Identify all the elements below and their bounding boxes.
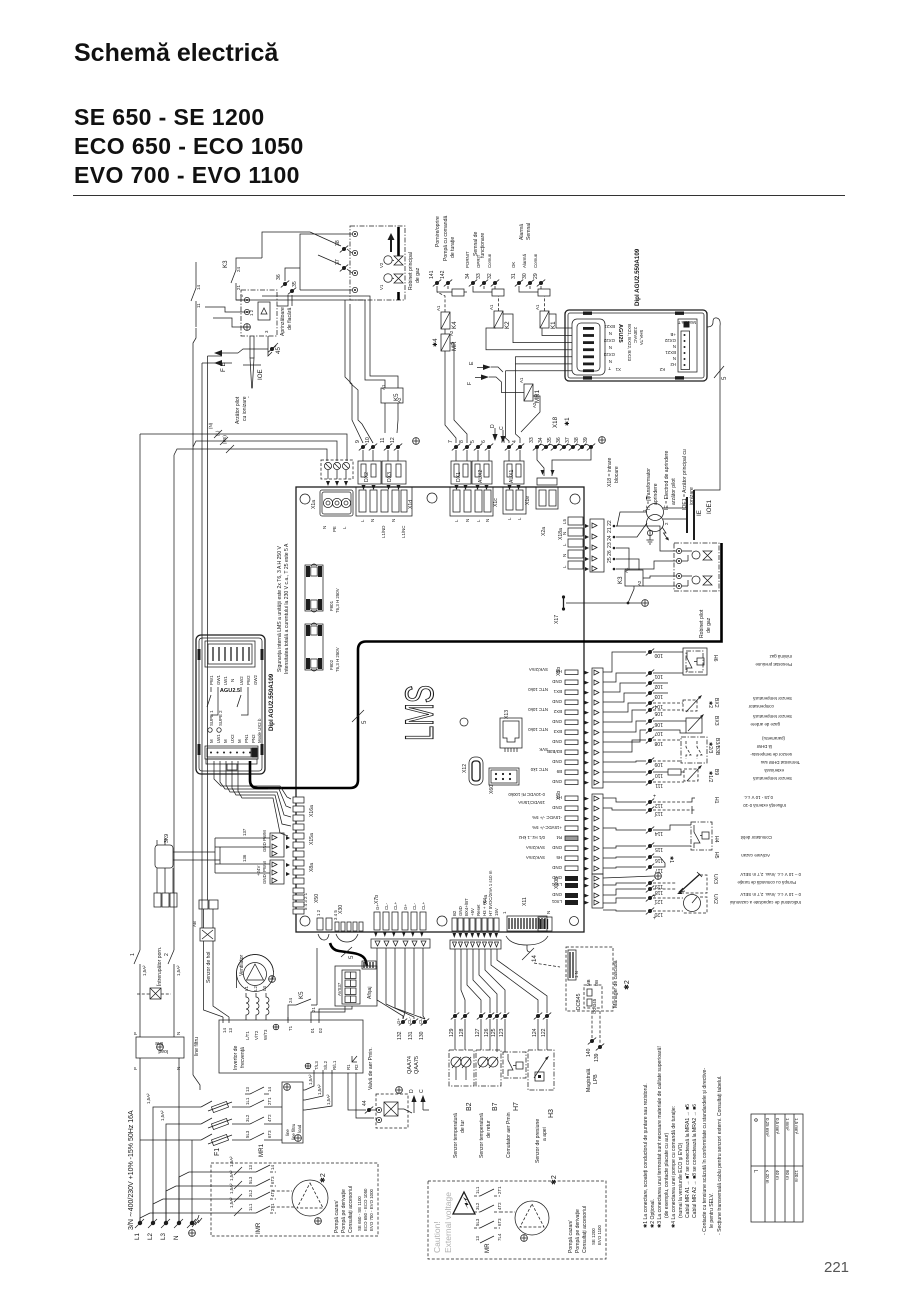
gas box terminals <box>352 231 357 292</box>
svg-text:X18 = intrare: X18 = intrare <box>607 458 613 487</box>
svg-text:Robinet pilot: Robinet pilot <box>699 609 705 638</box>
svg-text:40 m: 40 m <box>775 1170 780 1180</box>
svg-text:15VDC/15mA: 15VDC/15mA <box>518 800 545 805</box>
wires AGU to X16a <box>268 786 291 836</box>
main valve V1 <box>379 274 403 290</box>
group pornire/oprire labels <box>435 216 456 261</box>
svg-text:4T2: 4T2 <box>270 1189 275 1197</box>
svg-text:34: 34 <box>538 437 544 443</box>
svg-text:21: 21 <box>311 1007 316 1012</box>
svg-text:BX3: BX3 <box>713 716 719 726</box>
svg-text:2: 2 <box>664 522 669 525</box>
svg-text:Comutator debit: Comutator debit <box>740 835 772 840</box>
svg-text:GND: GND <box>552 805 562 810</box>
svg-text:CL-: CL- <box>384 902 389 910</box>
svg-text:H3 + H1: H3 + H1 <box>482 899 487 916</box>
svg-text:N: N <box>609 345 612 350</box>
svg-text:Intensitatea totală a curentul: Intensitatea totală a curentului la 230 … <box>284 543 290 674</box>
svg-text:3L2: 3L2 <box>245 1114 250 1122</box>
svg-text:AGU25: AGU25 <box>617 324 623 343</box>
K3 contact b <box>191 280 201 310</box>
contacts 9-12 <box>345 300 419 461</box>
AGU2.5 output thin wires <box>214 761 268 798</box>
svg-text:de tur: de tur <box>460 1120 466 1133</box>
svg-text:CL+: CL+ <box>393 901 398 910</box>
svg-text:G+: G+ <box>375 904 380 910</box>
svg-text:Pompă cu comandă: Pompă cu comandă <box>443 216 449 261</box>
svg-text:gaze de ardere: gaze de ardere <box>750 722 780 727</box>
svg-text:25 26: 25 26 <box>607 550 613 563</box>
svg-text:F802: F802 <box>329 659 334 670</box>
contact 38 <box>335 240 348 252</box>
svg-text:R/L1: R/L1 <box>332 1060 337 1070</box>
arzator pilot label <box>235 396 252 424</box>
svg-text:35: 35 <box>292 281 298 287</box>
svg-text:F: F <box>467 382 473 385</box>
svg-text:21: 21 <box>236 285 241 290</box>
svg-text:K4: K4 <box>451 321 458 329</box>
K3 relay coil <box>616 548 643 586</box>
svg-text:BX2: BX2 <box>553 709 562 714</box>
rows 114 115 H4 flow switch <box>603 822 772 852</box>
svg-text:45: 45 <box>275 347 282 354</box>
svg-text:130: 130 <box>419 1031 425 1040</box>
rows 108 109 B3 sensor <box>603 736 792 767</box>
svg-text:Senzor temperatură: Senzor temperatură <box>753 714 792 719</box>
svg-text:BX21: BX21 <box>604 324 615 329</box>
contact 45 <box>268 336 282 356</box>
svg-text:A1: A1 <box>535 304 540 310</box>
svg-text:G+: G+ <box>396 1018 401 1024</box>
svg-text:124: 124 <box>532 1028 538 1037</box>
resistor group1 <box>437 286 468 296</box>
svg-text:L: L <box>476 519 481 522</box>
svg-text:X60: X60 <box>489 785 495 794</box>
svg-text:de turaţie: de turaţie <box>450 237 456 258</box>
svg-text:C: C <box>419 1089 425 1093</box>
X10c header <box>450 487 499 522</box>
svg-text:T1: T1 <box>288 1025 293 1031</box>
H7 air switch box <box>503 1052 526 1158</box>
svg-text:Robinet principal: Robinet principal <box>408 252 414 290</box>
svg-text:107: 107 <box>654 730 663 736</box>
rows 110 111 B9 sensor <box>603 760 800 788</box>
svg-text:1: 1 <box>502 911 507 914</box>
svg-text:104: 104 <box>654 703 663 709</box>
svg-text:11: 11 <box>380 438 386 443</box>
svg-text:-: - <box>246 396 252 398</box>
svg-text:BX21, BX22, BX23: BX21, BX22, BX23 <box>627 324 632 362</box>
svg-text:1,5A²: 1,5A² <box>308 1074 313 1085</box>
svg-text:Întrerupător porn.: Întrerupător porn. <box>156 947 163 987</box>
robinet principal de gaz box <box>350 226 421 300</box>
relay MR1 aux <box>519 377 541 408</box>
svg-text:AVS37: AVS37 <box>337 982 342 996</box>
svg-text:A1: A1 <box>519 377 524 383</box>
svg-text:UX2: UX2 <box>712 894 718 904</box>
svg-text:Manager de cascadă: Manager de cascadă <box>613 960 619 1008</box>
3K9 pump module <box>155 834 220 868</box>
rows 112 113 H1 input <box>603 792 786 819</box>
svg-text:A2: A2 <box>532 402 537 408</box>
DX1 AUX2 mating plugs <box>451 461 492 490</box>
svg-text:N: N <box>485 519 490 522</box>
svg-text:K5: K5 <box>298 991 305 999</box>
svg-text:MR: MR <box>451 341 458 351</box>
X2a contact dots <box>613 525 616 571</box>
svg-text:108: 108 <box>654 740 663 746</box>
svg-text:IOE: IOE <box>257 369 264 380</box>
line load filter box <box>133 1032 200 1070</box>
svg-text:K2: K2 <box>504 321 511 329</box>
svg-text:H6: H6 <box>712 655 718 662</box>
fuse F801 <box>305 564 340 613</box>
svg-text:DX2: DX2 <box>364 472 370 482</box>
F1 fuses <box>208 1101 232 1156</box>
X10a mating plug <box>321 460 353 486</box>
svg-text:5: 5 <box>470 440 476 443</box>
rows 106 107 BX3 sensor <box>603 714 792 742</box>
contacts 141 142 <box>429 270 452 286</box>
svg-text:1,5A²: 1,5A² <box>176 965 181 976</box>
contacts 3 4 <box>501 440 524 461</box>
svg-text:✱2: ✱2 <box>623 980 631 990</box>
svg-text:R1: R1 <box>346 1064 351 1070</box>
svg-text:External voltage: External voltage <box>443 1192 453 1253</box>
svg-text:N: N <box>562 554 567 557</box>
svg-text:L: L <box>342 526 347 529</box>
svg-text:T/L3: T/L3 <box>314 1061 319 1070</box>
svg-text:A1: A1 <box>489 304 494 310</box>
svg-text:13: 13 <box>228 1028 233 1033</box>
svg-text:✱3 La conectarea unui termosta: ✱3 La conectarea unui termostat sunt nec… <box>657 1046 663 1228</box>
X7b header <box>374 895 426 930</box>
svg-text:C: C <box>499 426 505 430</box>
svg-text:2: 2 <box>164 953 170 956</box>
transformer ground <box>646 530 653 544</box>
svg-text:0-10VDC Ri 100k0: 0-10VDC Ri 100k0 <box>508 792 545 797</box>
X18 shorting loops <box>537 445 591 477</box>
line filter 2 box <box>272 1082 303 1143</box>
caution MR contacts <box>474 1186 502 1253</box>
senzor de hol thermostat <box>192 900 218 983</box>
wires relays to connectors <box>489 357 572 443</box>
svg-text:H3: H3 <box>548 1109 555 1118</box>
svg-text:Senzor temperatură: Senzor temperatură <box>453 1113 459 1158</box>
svg-text:1 N: 1 N <box>574 971 579 978</box>
svg-text:a apei: a apei <box>542 1127 548 1141</box>
svg-text:X30: X30 <box>338 905 344 914</box>
svg-text:L2: L2 <box>253 986 258 991</box>
svg-text:14: 14 <box>531 955 538 962</box>
PE row <box>603 873 661 880</box>
svg-text:Arzător pilot: Arzător pilot <box>235 396 241 424</box>
svg-text:Φ: Φ <box>752 1118 758 1122</box>
svg-text:0,15 - 10 V c.c.: 0,15 - 10 V c.c. <box>743 795 773 800</box>
switch continuation wires <box>140 972 174 1037</box>
svg-text:115: 115 <box>655 846 663 852</box>
svg-text:+B: +B <box>670 332 676 337</box>
H6 pressure switch <box>683 648 792 675</box>
svg-text:✱4: ✱4 <box>432 338 439 347</box>
svg-text:N: N <box>176 1032 181 1035</box>
AGU25 left pin labels <box>603 324 615 371</box>
svg-text:12: 12 <box>390 437 396 443</box>
svg-text:142: 142 <box>440 270 446 279</box>
svg-text:120 m: 120 m <box>794 1170 799 1183</box>
caution pump circle <box>500 1175 558 1241</box>
svg-text:AUX2: AUX2 <box>478 470 484 483</box>
model list <box>74 103 304 190</box>
svg-text:GND: GND <box>552 759 562 764</box>
svg-text:1,5A²: 1,5A² <box>142 965 147 976</box>
svg-text:IE: IE <box>696 510 703 516</box>
svg-text:BX21: BX21 <box>665 350 676 355</box>
svg-text:AUX1: AUX1 <box>509 470 515 483</box>
svg-text:X16a: X16a <box>309 805 315 817</box>
svg-text:Pompă pe derivaţie: Pompă pe derivaţie <box>341 1189 347 1233</box>
svg-text:1,5A²: 1,5A² <box>317 1084 322 1095</box>
svg-text:127: 127 <box>475 1028 481 1037</box>
svg-text:5: 5 <box>721 376 728 380</box>
svg-text:Aprinzătoare: Aprinzătoare <box>280 307 286 336</box>
svg-text:0 – 10 V c.c. /max. 2,7 m SELV: 0 – 10 V c.c. /max. 2,7 m SELV <box>740 892 801 897</box>
svg-text:PORNIT: PORNIT <box>465 251 470 268</box>
board edge bottom-right connector <box>538 917 552 931</box>
X11 mating brace <box>506 936 560 967</box>
disconnect contacts <box>196 1101 212 1140</box>
svg-text:PN1: PN1 <box>244 734 249 743</box>
svg-text:24: 24 <box>288 998 293 1003</box>
relay coil wires to AGU25 <box>486 314 572 350</box>
MR1 contactor contacts <box>232 1087 272 1157</box>
svg-text:B2: B2 <box>452 910 457 916</box>
svg-text:-: - <box>654 874 656 880</box>
svg-text:P: P <box>133 1032 138 1035</box>
svg-text:OPRIT: OPRIT <box>476 254 481 268</box>
internal fuse note <box>277 543 290 674</box>
svg-text:CL-: CL- <box>412 902 417 910</box>
X16a edge connector <box>293 797 315 830</box>
svg-text:DX1: DX1 <box>456 472 462 482</box>
spark lightning <box>662 527 668 539</box>
svg-text:PWM: PWM <box>262 861 267 872</box>
svg-text:T: T <box>608 366 611 371</box>
AGU25 left connector <box>572 319 621 375</box>
svg-text:1L1: 1L1 <box>475 1186 480 1194</box>
svg-text:02: 02 <box>318 1028 323 1033</box>
D C arrows <box>490 424 506 443</box>
svg-text:X50: X50 <box>314 894 320 903</box>
X30 header <box>316 905 363 931</box>
svg-text:100: 100 <box>654 652 663 658</box>
svg-text:line: line <box>285 1129 290 1136</box>
svg-text:X1a: X1a <box>311 500 317 509</box>
svg-text:33: 33 <box>476 273 482 279</box>
svg-text:exterioară: exterioară <box>764 768 784 773</box>
svg-text:Pompă cazan/: Pompă cazan/ <box>568 1220 574 1253</box>
svg-text:0,25 mm²: 0,25 mm² <box>765 1118 770 1137</box>
svg-text:5L3: 5L3 <box>248 1176 253 1184</box>
svg-text:GND: GND <box>552 719 562 724</box>
svg-text:de gaz: de gaz <box>706 617 712 633</box>
svg-text:103: 103 <box>654 693 663 699</box>
row 100 101 to H6 <box>603 649 683 682</box>
svg-text:de retur: de retur <box>486 1120 492 1138</box>
svg-text:H2: H2 <box>670 362 676 367</box>
pump box dashed <box>211 1163 378 1236</box>
pump box labels <box>334 1186 374 1233</box>
svg-text:LPB: LPB <box>593 1074 599 1084</box>
svg-text:DX3: DX3 <box>387 472 393 482</box>
svg-text:11: 11 <box>196 303 201 308</box>
svg-text:6: 6 <box>239 294 244 297</box>
AGU25 output hook wire <box>707 318 728 420</box>
svg-text:X17: X17 <box>554 615 560 624</box>
svg-text:DB: DB <box>594 980 599 986</box>
svg-text:LX01: LX01 <box>551 899 562 904</box>
svg-text:3L2: 3L2 <box>475 1202 480 1210</box>
X18 contacts 33-39 <box>529 437 605 451</box>
svg-text:1L1: 1L1 <box>248 1203 253 1211</box>
svg-text:109: 109 <box>654 761 663 767</box>
relay K4 <box>436 292 458 336</box>
svg-text:L: L <box>507 517 512 520</box>
svg-text:6T3: 6T3 <box>270 1176 275 1184</box>
svg-text:Consultaţi accesoriul: Consultaţi accesoriul <box>348 1186 354 1233</box>
svg-text:GND: GND <box>552 865 562 870</box>
svg-text:14: 14 <box>222 1028 227 1033</box>
svg-text:LMS: LMS <box>398 685 442 741</box>
svg-text:X1c: X1c <box>493 498 499 507</box>
motor winding <box>246 993 269 1020</box>
svg-text:M: M <box>209 739 214 743</box>
svg-text:X13: X13 <box>504 710 510 719</box>
svg-text:Siguranţa internă LMS a unităţ: Siguranţa internă LMS a unităţii este 2x… <box>277 545 283 672</box>
svg-text:P: P <box>133 1067 138 1070</box>
svg-text:5HA,TA: 5HA,TA <box>639 330 644 345</box>
K5 relay coil <box>381 384 403 403</box>
svg-text:(L): (L) <box>215 430 220 436</box>
svg-text:L1: L1 <box>134 1233 141 1240</box>
E F arrows mid <box>467 361 491 385</box>
svg-text:- Contacte cu tensiune scăzută: - Contacte cu tensiune scăzută în confor… <box>702 1068 708 1235</box>
svg-text:B3/B3B: B3/B3B <box>547 749 562 754</box>
svg-text:15V: 15V <box>494 908 499 916</box>
wires display to inverter <box>311 1006 352 1017</box>
LPB bus contacts <box>586 1011 604 1092</box>
svg-text:X15a: X15a <box>309 833 315 845</box>
svg-text:✱2: ✱2 <box>707 701 713 708</box>
svg-text:+5V: +5V <box>470 908 475 916</box>
svg-text:MB: MB <box>586 979 591 986</box>
svg-text:PWM: PWM <box>262 830 267 841</box>
svg-text:+24V: +24V <box>256 866 261 876</box>
svg-text:EVO 1100: EVO 1100 <box>597 1225 602 1245</box>
svg-text:MR: MR <box>484 1243 491 1253</box>
K4 MR wires down <box>445 329 467 443</box>
svg-text:0 – 10 V c.c. /max. 2,7 m SELV: 0 – 10 V c.c. /max. 2,7 m SELV <box>740 872 801 877</box>
svg-text:126: 126 <box>484 1028 490 1037</box>
X18 header block <box>536 470 558 509</box>
svg-text:36: 36 <box>556 437 562 443</box>
wire N <box>140 422 347 461</box>
svg-text:1,5A²: 1,5A² <box>160 1110 165 1121</box>
svg-text:-: - <box>654 901 656 907</box>
svg-text:4T2: 4T2 <box>497 1202 502 1210</box>
svg-text:N: N <box>230 679 235 682</box>
X6b mating strip <box>584 794 603 874</box>
X4a header <box>452 870 499 931</box>
svg-text:1L1: 1L1 <box>245 1097 250 1105</box>
svg-text:MR1: MR1 <box>258 1143 265 1157</box>
relay K1 <box>535 296 557 329</box>
svg-text:senzor de temperatu-: senzor de temperatu- <box>750 752 792 757</box>
svg-text:N: N <box>370 519 375 522</box>
svg-text:OK: OK <box>511 262 516 268</box>
svg-text:-/+ 5%: -/+ 5% <box>532 825 545 830</box>
ionisation electrode <box>243 336 264 388</box>
svg-text:6T3: 6T3 <box>267 1130 272 1138</box>
svg-text:IE = Electrod de aprindere: IE = Electrod de aprindere <box>664 451 670 510</box>
contact terminal wires <box>300 232 352 290</box>
svg-text:X12: X12 <box>462 764 468 773</box>
svg-text:1,5A²: 1,5A² <box>146 1093 151 1104</box>
svg-text:GND: GND <box>552 875 562 880</box>
svg-text:- Secţiune transversală cablu: - Secţiune transversală cablu pentru sen… <box>717 1076 723 1235</box>
svg-text:80 m: 80 m <box>785 1170 790 1180</box>
svg-text:✱4 La conectarea unei pompe cu: ✱4 La conectarea unei pompe cu comandă d… <box>671 1106 677 1228</box>
svg-text:V1: V1 <box>379 284 384 290</box>
svg-text:Pompă pe derivaţie: Pompă pe derivaţie <box>575 1209 581 1253</box>
svg-text:Pompă cu comandă de turaţie: Pompă cu comandă de turaţie <box>737 880 796 885</box>
DX2 DX3 mating plugs <box>358 461 406 490</box>
svg-text:38: 38 <box>574 437 580 443</box>
B2 sensor box <box>449 1050 474 1158</box>
svg-text:L1/ND: L1/ND <box>381 526 386 538</box>
svg-text:6T3: 6T3 <box>497 1218 502 1226</box>
svg-text:SVK: SVK <box>539 747 548 752</box>
svg-text:SE 1200: SE 1200 <box>591 1228 596 1245</box>
svg-text:105: 105 <box>654 710 663 716</box>
svg-text:128: 128 <box>459 1028 465 1037</box>
svg-text:101: 101 <box>654 673 663 679</box>
svg-text:NTC 10k0: NTC 10k0 <box>528 687 548 692</box>
svg-text:✱2 Opţional.: ✱2 Opţional. <box>650 1199 656 1228</box>
svg-text:GND: GND <box>262 874 267 884</box>
svg-text:A2: A2 <box>637 580 642 586</box>
X4a wires to sensor contacts <box>455 949 547 1013</box>
svg-text:B3/B3B: B3/B3B <box>714 738 720 756</box>
svg-text:13: 13 <box>245 1087 250 1092</box>
bold display bus <box>330 943 367 966</box>
X10d header <box>356 487 414 538</box>
svg-text:13: 13 <box>248 1165 253 1170</box>
svg-text:14: 14 <box>196 285 201 290</box>
svg-text:V/T2: V/T2 <box>254 1030 259 1040</box>
X50 edge connector <box>293 888 320 914</box>
semnal de functionare labels <box>473 231 486 258</box>
svg-text:GX22: GX22 <box>603 338 615 343</box>
svg-text:E: E <box>469 361 475 365</box>
svg-text:CL+: CL+ <box>418 1015 423 1024</box>
X15a X8a bus wires left <box>215 828 270 873</box>
svg-text:L: L <box>454 519 459 522</box>
svg-text:le pentru SELV.: le pentru SELV. <box>709 1193 715 1228</box>
svg-text:L3: L3 <box>160 1233 167 1240</box>
AGU2.5 bottom terminal block <box>205 718 262 770</box>
X8a edge connector <box>256 860 315 884</box>
